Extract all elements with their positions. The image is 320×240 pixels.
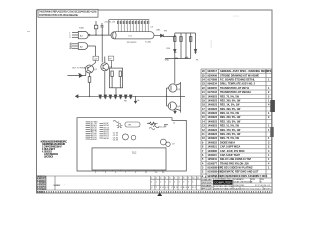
svg-text:C4 X3: C4 X3: [113, 140, 118, 142]
svg-text:4: 4: [165, 178, 166, 180]
svg-text:RES. 75, 5%, 1W: RES. 75, 5%, 1W: [220, 137, 240, 140]
svg-text:RES. 220, 5%, 1W: RES. 220, 5%, 1W: [220, 133, 241, 136]
svg-text:1400023: 1400023: [208, 95, 218, 98]
svg-text:B8 NC: B8 NC: [104, 138, 110, 140]
svg-text:RES. 300, 5%, 1W: RES. 300, 5%, 1W: [220, 116, 241, 119]
svg-text:NEXT ASSY: NEXT ASSY: [54, 184, 62, 187]
svg-text:RES. 390, 5%, 1W: RES. 390, 5%, 1W: [220, 108, 241, 111]
svg-text:92C10244-01: 92C10244-01: [255, 185, 270, 187]
svg-text:1400380: 1400380: [208, 150, 218, 153]
svg-text:2: 2: [160, 182, 161, 184]
svg-text:RES. 1K, 5%, 1W: RES. 1K, 5%, 1W: [220, 104, 240, 107]
svg-text:1: 1: [188, 182, 189, 184]
svg-text:STROBE DRAWING KIT W/ HDWE: STROBE DRAWING KIT W/ HDWE: [220, 74, 259, 77]
svg-text:1400023: 1400023: [208, 116, 218, 119]
svg-text:DWG NO 92C10244: DWG NO 92C10244: [241, 188, 261, 190]
svg-text:9060234: 9060234: [208, 83, 218, 86]
svg-text:7: 7: [179, 178, 180, 180]
svg-text:PC BD 2 SIDED W/ PLATING: PC BD 2 SIDED W/ PLATING: [220, 167, 253, 170]
svg-text:1: 1: [151, 178, 152, 180]
svg-text:RES. 75, 5%, 1W: RES. 75, 5%, 1W: [220, 95, 240, 98]
svg-text:CAP. 100PF MICA: CAP. 100PF MICA: [220, 146, 241, 149]
svg-text:SH 1 OF 1: SH 1 OF 1: [264, 188, 271, 190]
svg-text:J2: J2: [173, 122, 175, 124]
svg-text:1400023: 1400023: [208, 129, 218, 132]
svg-text:1400023: 1400023: [208, 133, 218, 136]
svg-text:7400: 7400: [79, 28, 85, 30]
svg-text:P.C. BOARD ETCHING DETAIL: P.C. BOARD ETCHING DETAIL: [220, 78, 255, 81]
svg-text:9030455: 9030455: [208, 87, 218, 90]
svg-text:GENERAL ASSY SPEC - MARKING R: GENERAL ASSY SPEC - MARKING REQMTS: [220, 70, 272, 73]
svg-text:SCHEMATIC REF DWG AND LIST: SCHEMATIC REF DWG AND LIST: [220, 171, 259, 174]
svg-text:GND: GND: [165, 59, 170, 61]
svg-text:DELAY LINE MODULE: DELAY LINE MODULE: [234, 181, 253, 184]
svg-text:RES. 300, 5%, 1W: RES. 300, 5%, 1W: [220, 99, 241, 102]
svg-text:R15 220: R15 220: [159, 127, 166, 129]
svg-text:1: 1: [165, 182, 166, 184]
svg-text:APPD 4-12-68: APPD 4-12-68: [202, 187, 212, 190]
svg-text:CHK R. OLSON: CHK R. OLSON: [202, 182, 213, 184]
svg-text:1400023: 1400023: [208, 108, 218, 111]
svg-text:10: 10: [192, 178, 194, 180]
svg-text:1: 1: [151, 182, 152, 184]
svg-text:DRILL TEMPLATE ASSY NO. 2: DRILL TEMPLATE ASSY NO. 2: [220, 83, 256, 86]
svg-text:1400023: 1400023: [208, 137, 218, 140]
svg-text:1400023: 1400023: [208, 112, 218, 115]
svg-text:+5V: +5V: [94, 58, 98, 60]
svg-text:Q4 CR3 C9: Q4 CR3 C9: [44, 156, 54, 159]
svg-text:A DIVISION OF DATA CORP: A DIVISION OF DATA CORP: [214, 187, 234, 190]
svg-text:RES. 51, 5%, 1W: RES. 51, 5%, 1W: [220, 125, 240, 128]
svg-text:CAP. .01UF, 25V DISC: CAP. .01UF, 25V DISC: [220, 150, 245, 153]
svg-text:TRANS PAD NYLON .200: TRANS PAD NYLON .200: [220, 162, 249, 165]
svg-text:9170088: 9170088: [208, 78, 218, 81]
svg-text:CODE 12345: CODE 12345: [234, 185, 245, 187]
svg-text:TRANSISTOR LOT 2N711: TRANSISTOR LOT 2N711: [220, 87, 250, 90]
svg-text:9100077: 9100077: [208, 162, 218, 165]
svg-text:2: 2: [156, 178, 157, 180]
svg-text:8: 8: [183, 178, 184, 180]
svg-text:CAP. 6.8UF TANT: CAP. 6.8UF TANT: [220, 154, 240, 157]
svg-text:9200496: 9200496: [208, 74, 218, 77]
svg-text:9200517: 9200517: [208, 70, 218, 73]
svg-text:9170102: 9170102: [208, 91, 218, 94]
svg-text:SCALE: SCALE: [234, 187, 241, 190]
svg-text:5: 5: [169, 178, 170, 180]
svg-text:11: 11: [197, 178, 199, 180]
svg-text:DR J. MELCHER: DR J. MELCHER: [202, 179, 213, 181]
svg-text:ENG D. HANSEN: ENG D. HANSEN: [202, 184, 213, 187]
svg-text:QTY REQD PER DASH NO: QTY REQD PER DASH NO: [151, 186, 197, 189]
svg-text:1400023: 1400023: [208, 125, 218, 128]
svg-text:RES. 91, 5%, 1W: RES. 91, 5%, 1W: [220, 112, 240, 115]
svg-text:9: 9: [188, 178, 189, 180]
svg-text:1400023: 1400023: [208, 99, 218, 102]
svg-text:92C10119: 92C10119: [127, 42, 137, 44]
svg-text:1: 1: [192, 182, 193, 184]
svg-text:FOR PRODUCTION UNTIL FINAL REL: FOR PRODUCTION UNTIL FINAL RELEASE: [39, 14, 78, 17]
svg-text:OUT TO PIN A4 J1: OUT TO PIN A4 J1: [72, 67, 90, 70]
svg-text:1250041: 1250041: [208, 158, 218, 161]
svg-text:A10 NC: A10 NC: [91, 138, 98, 141]
svg-text:1400115: 1400115: [208, 154, 218, 157]
svg-text:DELAY LINE 100NS 10 TAP: DELAY LINE 100NS 10 TAP: [220, 158, 251, 161]
svg-text:TRANSISTOR LOT 2N914A: TRANSISTOR LOT 2N914A: [220, 91, 251, 94]
svg-text:RES. 470, 5%, 1W: RES. 470, 5%, 1W: [220, 129, 241, 132]
svg-text:1: 1: [156, 182, 157, 184]
svg-text:DL2: DL2: [132, 152, 137, 155]
svg-text:G 52334: G 52334: [37, 191, 44, 194]
svg-text:T=100: T=100: [145, 42, 152, 44]
svg-text:DIODE IN914: DIODE IN914: [220, 141, 236, 144]
svg-text:3: 3: [160, 178, 161, 180]
svg-text:1400022: 1400022: [208, 141, 218, 144]
svg-text:1400023: 1400023: [208, 120, 218, 123]
svg-text:COMPUTER: COMPUTER: [214, 181, 232, 185]
svg-text:RES. 150, 5%, 1W: RES. 150, 5%, 1W: [220, 120, 241, 123]
svg-text:1: 1: [174, 182, 175, 184]
svg-text:2: 2: [183, 182, 184, 184]
svg-text:6: 6: [174, 178, 175, 180]
svg-text:1: 1: [179, 182, 180, 184]
svg-text:1400023: 1400023: [208, 104, 218, 107]
svg-text:CR1: CR1: [156, 30, 161, 32]
svg-text:1400021: 1400021: [208, 146, 218, 149]
svg-text:4: 4: [169, 182, 170, 184]
